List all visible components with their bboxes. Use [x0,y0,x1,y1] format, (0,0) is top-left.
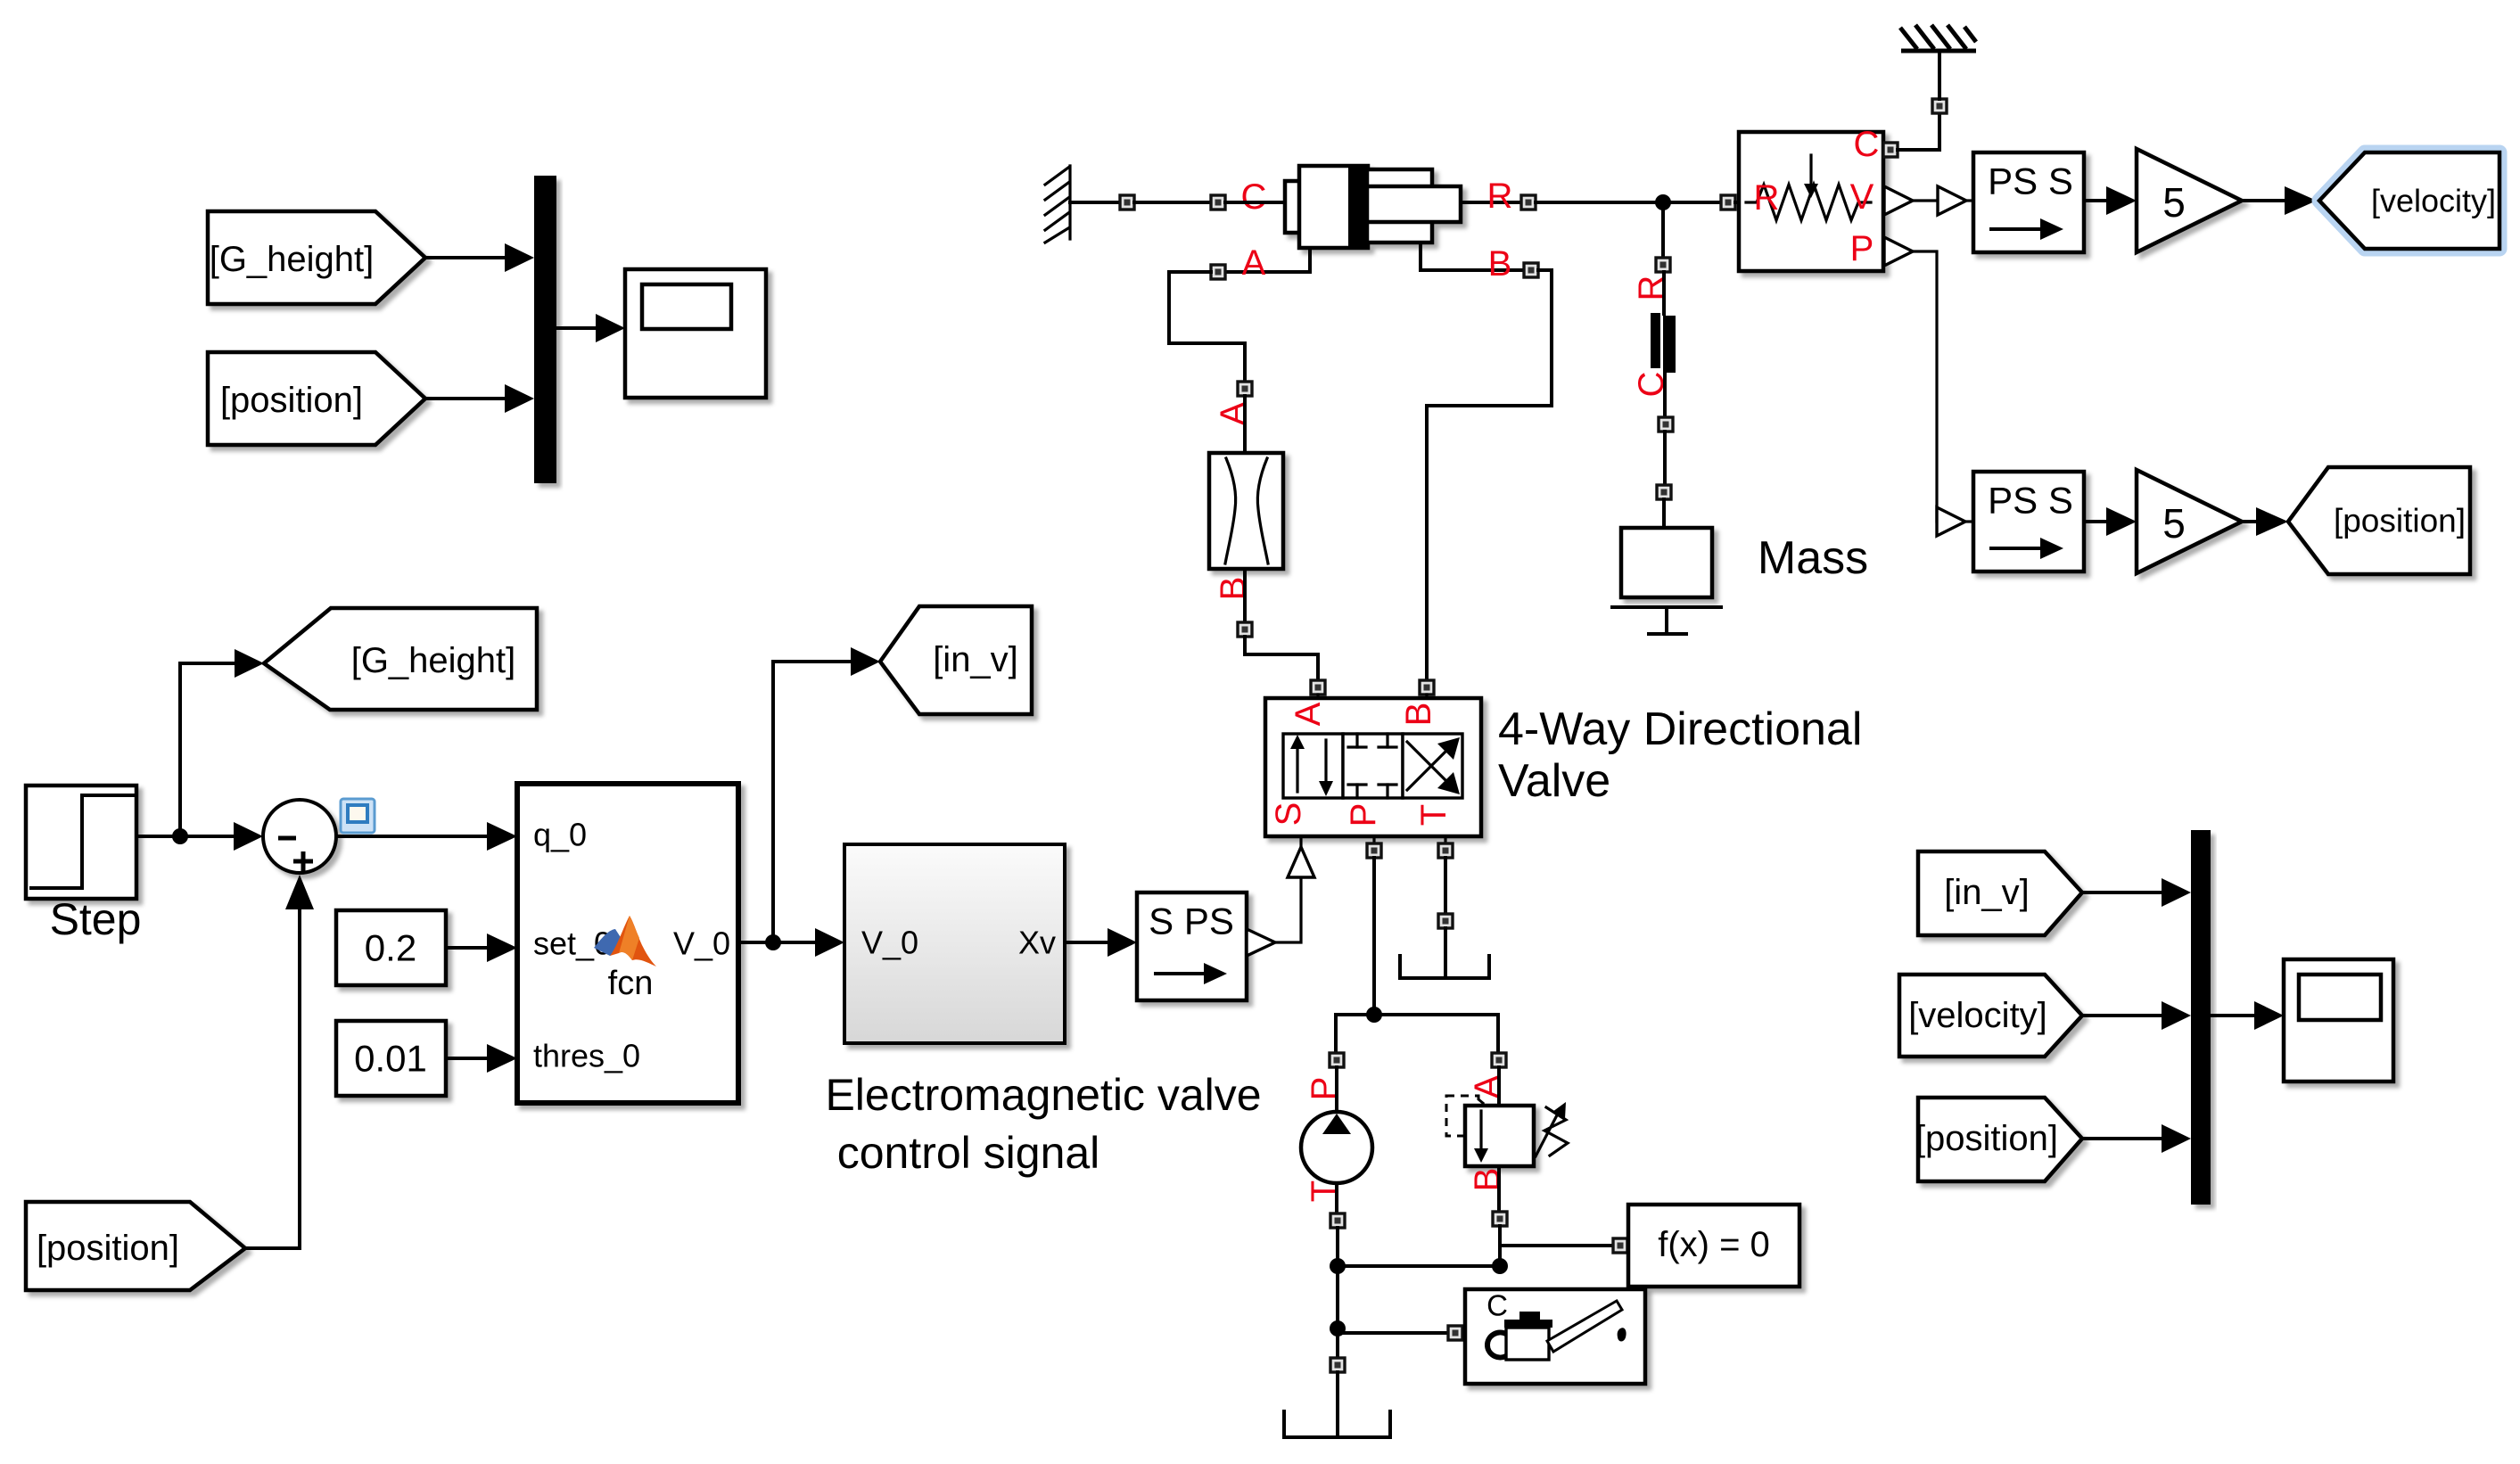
oil can icon [1487,1301,1626,1360]
svg-text:0.01: 0.01 [354,1038,427,1080]
svg-text:Valve: Valve [1498,755,1610,807]
Scope2 [2284,959,2393,1082]
svg-text:B: B [1399,703,1438,727]
wire branch up to Goto [G_height] [180,663,236,836]
svg-text:thres_0: thres_0 [533,1038,640,1074]
svg-text:[velocity]: [velocity] [2371,183,2496,219]
svg-text:A: A [1289,702,1328,726]
From tag [in_v] (bottom right) [1918,851,2082,935]
junction node on Step wire [172,828,188,844]
Goto tag [position] [2288,467,2470,574]
From tag [position] (top-left) [208,352,425,445]
mechanical reference ground (left of cylinder) [1045,166,1070,243]
wire ground to cylinder C port [1070,201,1121,204]
PS-S converter (velocity) [1973,152,2084,252]
Solver configuration f(x)=0 [1628,1205,1799,1287]
Goto tag [velocity] (selected halo) [2319,152,2499,249]
hydraulic reference tank (bottom) [1284,1411,1390,1437]
svg-text:5: 5 [2162,179,2186,226]
From tag [G_height] (top-left) [208,211,425,304]
MATLAB logo [594,916,656,966]
From tag [position] (lower-left) [26,1202,245,1290]
svg-text:A: A [1214,401,1253,425]
svg-text:[in_v]: [in_v] [933,640,1018,679]
svg-text:V_0: V_0 [673,925,730,962]
svg-text:T: T [1414,804,1454,826]
svg-text:C: C [1241,177,1267,217]
valve left cell arrows [1296,747,1298,792]
Pressure relief valve [1446,1096,1478,1136]
svg-text:B: B [1488,244,1512,284]
svg-text:P: P [1850,229,1874,268]
svg-text:V_0: V_0 [861,925,918,961]
PS wire S PS to valve S port [1247,929,1275,956]
Step block [26,785,136,899]
svg-text:4-Way Directional: 4-Way Directional [1498,703,1862,755]
wire 0.2 to fcn [446,946,489,950]
wire Step to Sum [136,835,235,838]
Goto tag [G_height] [264,608,537,710]
svg-text:control signal: control signal [837,1128,1100,1178]
svg-text:[position]: [position] [37,1229,179,1268]
node P branch under valve [1366,1007,1382,1023]
svg-text:Mass: Mass [1758,532,1868,584]
svg-text:B: B [1214,577,1253,601]
Double-acting hydraulic cylinder [1285,166,1461,248]
mechanical reference ground (top right) [1900,25,1976,51]
wire Mux2 to Scope2 [2211,1014,2256,1017]
wire cylinder R port [1461,201,1522,204]
Constant 0.01 [336,1021,446,1096]
junction node on R wire [1655,194,1671,210]
svg-text:A: A [1242,243,1266,283]
svg-text:fcn: fcn [608,965,654,1002]
svg-text:[G_height]: [G_height] [210,240,375,279]
Subsystem: Electromagnetic valve control signal [844,844,1065,1043]
wire Sum to fcn q_0 [336,835,489,838]
wire 0.01 to fcn [446,1057,489,1060]
Mass block [1621,528,1712,597]
Constant 0.2 [336,910,446,985]
4-Way Directional Valve block [1265,698,1481,836]
svg-text:P: P [1344,803,1383,827]
svg-text:B: B [1468,1168,1507,1192]
svg-text:A: A [1468,1074,1507,1098]
svg-text:q_0: q_0 [533,817,587,853]
PS wire sensor V to PS-S converter [1884,186,1913,215]
valve A port connector [1311,680,1325,695]
svg-text:Step: Step [50,894,142,944]
tank return junction row [1330,1258,1346,1274]
svg-text:C: C [1854,125,1880,164]
Goto tag [in_v] [880,606,1032,714]
wire branch up to Goto [in_v] [773,662,852,942]
Fixed-displacement pump [1301,1112,1372,1183]
Local restriction (orifice) block [1209,453,1283,569]
PS-S converter (position) [1973,472,2084,572]
svg-text:R: R [1487,177,1513,216]
translational damper [1651,313,1660,368]
svg-text:f(x) = 0: f(x) = 0 [1658,1225,1770,1264]
svg-text:0.2: 0.2 [365,927,416,969]
Gain 5 (velocity) [2137,149,2242,252]
Mux2 [2191,830,2211,1205]
svg-text:S PS: S PS [1149,901,1234,942]
svg-text:Xv: Xv [1018,925,1056,961]
wire R junction to sensor R [1735,201,1739,204]
Mux1 [534,176,556,483]
svg-text:C: C [1486,1289,1508,1322]
wire down to fluid block and tank [1336,1266,1339,1359]
svg-text:[position]: [position] [220,381,363,420]
svg-text:[in_v]: [in_v] [1944,873,2030,912]
wire to pump P [1334,1015,1338,1054]
valve P port connector and wire down [1372,836,1375,844]
wire From[position] to Mux1 [425,397,506,400]
wire PS-S to Gain5 (position) [2084,520,2108,523]
svg-text:R: R [1754,178,1780,218]
valve B port connector [1420,680,1434,695]
svg-text:PS S: PS S [1988,160,2073,202]
Sum block [263,800,336,873]
Custom hydraulic fluid block [1465,1289,1645,1384]
wire to f(x)=0 solver block [1500,1244,1614,1247]
wire Gain to Goto [velocity] [2242,199,2286,202]
wire junction down to damper [1661,202,1665,259]
junction node on V_0 wire [765,934,781,950]
wire subsystem Xv to S PS [1065,941,1109,944]
viewer badge on sum output [341,799,375,833]
svg-text:[position]: [position] [2334,503,2466,539]
From tag [velocity] (bottom right) [1899,975,2082,1057]
svg-text:Electromagnetic valve: Electromagnetic valve [825,1070,1261,1120]
From tag [position] (bottom right) [1918,1098,2082,1181]
svg-text:S: S [1269,802,1308,827]
sensor C port wire to ground [1883,143,1898,157]
wire PS-S to Gain5 (velocity) [2084,199,2108,202]
wire to relief valve A [1496,1015,1500,1054]
wire fcn V_0 out to subsystem [738,941,817,944]
hydraulic reference tank (under valve T) [1400,956,1489,978]
wire Gain to Goto [position] [2242,520,2258,523]
Scope1 [625,269,766,398]
PS wire sensor P down to PS-S converter (position) [1884,237,1913,266]
valve T port connector and wire to tank [1444,836,1446,844]
svg-text:[velocity]: [velocity] [1908,996,2047,1035]
MATLAB Function block [517,784,738,1103]
svg-text:[G_height]: [G_height] [351,641,516,680]
svg-text:PS S: PS S [1988,480,2073,522]
svg-text:5: 5 [2162,500,2186,547]
valve centre cell closed-port symbols [1355,734,1358,747]
Ideal translational motion sensor [1739,132,1883,271]
wire cylinder B port path to valve B [1421,243,1529,270]
wire From[position] up into Sum [245,911,300,1248]
wire Mux1 to Scope1 [556,326,597,330]
S PS converter [1137,892,1247,1000]
svg-text:V: V [1850,177,1874,217]
valve right cell crossed arrows [1407,745,1452,790]
wire From[G_height] to Mux1 [425,256,506,259]
svg-text:[position]: [position] [1915,1119,2058,1158]
Gain 5 (position) [2137,470,2242,573]
wire cylinder A port path to orifice [1225,248,1310,272]
